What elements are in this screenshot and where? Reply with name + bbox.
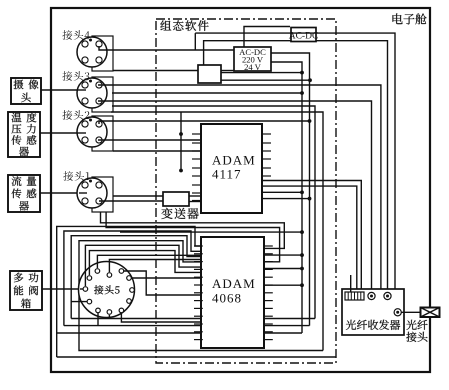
- wire J2 pin to rail310: [99, 121, 310, 124]
- wire 220V box GND rail: [271, 62, 302, 333]
- ADAM4068 right pin y308.4: [264, 307, 273, 309]
- wire J3 bracket to rail323: [111, 112, 323, 351]
- wire 4117 to fiber transceiver a: [262, 181, 361, 290]
- ADAM4068 right pin y300.6: [264, 300, 273, 302]
- wire J4 bracket to blank box: [113, 70, 198, 72]
- wire camera to connector3: [41, 89, 78, 91]
- wire J1 bracket to ADAM4068 right b: [106, 212, 280, 262]
- ADAM4068 right pin y331.8: [264, 331, 273, 333]
- ADAM4117 left pin 3: [192, 150, 201, 152]
- ADAM4068 left pin y339.6: [194, 339, 203, 341]
- wire 4068 right to rail c: [264, 284, 302, 286]
- wire 4068 right to rail a: [264, 254, 302, 256]
- ADAM4068 left pin y261.6: [194, 261, 203, 263]
- label 光纤: [406, 320, 427, 330]
- wire J3 pin to fiber circle1: [98, 101, 372, 289]
- ADAM4068 left pin y277.2: [194, 276, 203, 278]
- wire temp into J2: [77, 132, 86, 134]
- wire J5 pin up wrap b: [89, 251, 201, 275]
- wire J5 bottom pin join a: [97, 313, 99, 326]
- ADAM4068 left pin y316.2: [194, 315, 203, 317]
- connector J1 接头1 body: [77, 178, 107, 208]
- transceiver RJ45 port: [345, 292, 364, 300]
- 组态软件 dash-dot boundary: [156, 19, 336, 363]
- wire flow into J1: [79, 192, 87, 194]
- ADAM4068 left pin y292.8: [194, 292, 203, 294]
- wire flow sensor to connector1: [40, 192, 80, 194]
- ADAM4068 right pin y246: [264, 245, 273, 247]
- ADAM4068 left pin y246: [194, 245, 203, 247]
- ADAM4068 right pin y261.6: [264, 261, 273, 263]
- transceiver port circle 2: [384, 292, 391, 299]
- wire AC feed from small box to 220V box: [244, 27, 290, 48]
- ADAM 4068 module: [201, 237, 264, 348]
- wire J5 left pin to wrap: [71, 301, 89, 303]
- wire J5 bottom pin to 4068 pin322: [121, 313, 201, 322]
- ADAM4117 left pin 2: [192, 142, 201, 144]
- ADAM4068 right pin y285: [264, 284, 273, 286]
- box 多功能阀箱 (multi-function valve box): [10, 271, 42, 310]
- connector J5 接头5 body: [79, 262, 135, 318]
- wire J5 pin up d: [109, 260, 201, 273]
- AC-DC 220V/24V power supply: [234, 47, 271, 71]
- wire blank box up-right rail: [204, 41, 388, 289]
- ADAM4068 left pin y331.8: [194, 331, 203, 333]
- ADAM4068 right pin y277.2: [264, 276, 273, 278]
- AC-DC converter small box: [291, 28, 316, 42]
- wire J5 pin up c: [97, 255, 201, 268]
- wire 4117 right to rail302: [262, 191, 302, 193]
- wire transmitter to ADAM4117 a: [189, 195, 201, 197]
- label 光纤收发器: [346, 320, 400, 330]
- ADAM4068 left pin y253.8: [194, 253, 203, 255]
- svg-text:4068: 4068: [212, 291, 242, 306]
- label 变送器: [161, 208, 198, 219]
- connector J2 接头2 label: [62, 110, 89, 120]
- wrap wire loop4: [79, 241, 323, 351]
- ADAM4117 left pin 5: [192, 167, 201, 169]
- svg-text:ADAM: ADAM: [212, 276, 256, 291]
- ADAM4068 right pin y269.4: [264, 268, 273, 270]
- blank interface box: [198, 65, 221, 83]
- ADAM4117 right pin 3: [262, 150, 271, 152]
- connector J1 接头1 bracket: [92, 177, 113, 212]
- ADAM4117 left pin 9: [192, 200, 201, 202]
- connector J2 接头2 bracket: [92, 116, 113, 151]
- ADAM4117 right pin 5: [262, 167, 271, 169]
- wire rail315 bottom to left: [71, 318, 315, 320]
- ADAM4068 left pin y269.4: [194, 268, 203, 270]
- ADAM4117 right pin 6: [262, 175, 271, 177]
- ADAM4117 right pin 4: [262, 158, 271, 160]
- connector J4 接头4 label: [62, 30, 89, 40]
- wrap wire loop3: [71, 236, 201, 319]
- ADAM4117 left pin 4: [192, 158, 201, 160]
- wire branch up from J4 wire: [194, 33, 196, 50]
- wire J4 pin to AC-DC 220V box: [99, 46, 234, 50]
- wire v56 ext: [56, 333, 58, 357]
- box 流量传感器 (flow sensor): [8, 175, 40, 212]
- wire J5 bottom pin join b: [108, 315, 110, 319]
- ADAM4117 right pin 1: [262, 133, 271, 135]
- box 摄像头 (camera): [11, 78, 41, 104]
- ADAM4117 right pin 2: [262, 142, 271, 144]
- wire J2 bracket to ADAM4117: [113, 150, 201, 152]
- connector J4 接头4 body: [77, 37, 107, 67]
- label 组态软件: [160, 20, 208, 31]
- svg-text:AC-DC: AC-DC: [289, 32, 319, 42]
- wrap wire loop1: [57, 226, 302, 333]
- wire transmitter to ADAM4117 b: [189, 201, 201, 203]
- wire blank box to rail302: [221, 72, 302, 74]
- wrap wire loop2: [64, 231, 201, 326]
- connector J3 接头3 body: [77, 78, 107, 108]
- wire bus vertical: [180, 112, 182, 171]
- label 接头5: [94, 285, 119, 294]
- wire top rail through AC-DC to right: [195, 33, 395, 289]
- ADAM4068 right pin y339.6: [264, 339, 273, 341]
- ADAM4068 right pin y253.8: [264, 253, 273, 255]
- wire 220V box rail310: [271, 53, 310, 326]
- wire transceiver stub: [350, 275, 352, 292]
- wire temp sensor to connector2: [40, 132, 78, 134]
- ADAM4117 left pin 1: [192, 133, 201, 135]
- wire blank box to 220V box: [221, 70, 234, 72]
- ADAM4068 left pin y324: [194, 323, 203, 325]
- wire J5 right pin b: [129, 277, 201, 279]
- wire transceiver to fiber connector: [401, 311, 421, 313]
- wire J5 pin up wrap a: [85, 245, 201, 286]
- fiber transceiver 光纤收发器 box: [342, 289, 404, 335]
- wire blank box to rail310: [221, 79, 310, 81]
- ADAM4068 right pin y316.2: [264, 315, 273, 317]
- fiber connector 光纤接头 symbol: [421, 308, 440, 318]
- wire J1 bracket to transmitter: [113, 195, 163, 197]
- svg-text:4117: 4117: [212, 167, 242, 182]
- connector J2 接头2 body: [77, 117, 107, 147]
- transceiver port circle 1: [368, 292, 375, 299]
- wire J1 pin to transmitter 2: [99, 200, 163, 202]
- svg-text:ADAM: ADAM: [212, 153, 256, 168]
- label 接头: [406, 332, 427, 342]
- wire J3 band wire b rail315: [112, 106, 315, 319]
- ADAM4068 left pin y308.4: [194, 307, 203, 309]
- transceiver fiber port: [394, 309, 401, 316]
- ADAM4068 left pin y300.6: [194, 300, 203, 302]
- wire 4068 right to rail b: [264, 268, 302, 270]
- wire valve box into J5 pin: [80, 288, 85, 290]
- wire bottom long rail: [57, 356, 336, 358]
- ADAM4068 right pin y324: [264, 323, 273, 325]
- wire J5 right pin a: [121, 271, 201, 295]
- wire J2 pin to ADAM4117: [98, 139, 201, 141]
- label 电子舱: [393, 13, 427, 24]
- wire J3 pin to fiber box top: [98, 85, 381, 289]
- wire rail310 bottom to left: [64, 325, 310, 327]
- ADAM4117 left pin 8: [192, 192, 201, 194]
- connector J3 接头3 label: [62, 71, 89, 81]
- wire valve box to connector5: [42, 288, 80, 290]
- transmitter 变送器 box: [163, 192, 189, 206]
- ADAM4068 right pin y292.8: [264, 292, 273, 294]
- connector J4 接头4 bracket: [92, 36, 113, 71]
- connector J1 接头1 label: [63, 171, 89, 181]
- 电子舱 enclosure frame: [51, 8, 430, 372]
- ADAM4068 left pin y285: [194, 284, 203, 286]
- box 温度压力传感器 (temp/pressure sensor): [8, 112, 40, 157]
- connector J3 接头3 bracket: [92, 77, 113, 112]
- svg-text:24 V: 24 V: [244, 62, 262, 72]
- ADAM4117 left pin 6: [192, 175, 201, 177]
- ADAM 4117 module: [201, 124, 262, 213]
- wire 4117 right to rail310: [262, 198, 310, 200]
- wire J1 bracket to ADAM4068 right a: [101, 212, 285, 248]
- wire 4117 to fiber transceiver b: [262, 186, 357, 289]
- ADAM4117 left pin 7: [192, 184, 201, 186]
- connector J5 pins: [95, 269, 100, 274]
- wire camera into J3: [77, 89, 86, 91]
- wire J3 band wire a: [112, 92, 302, 94]
- wire bus to rail302 above 4068: [120, 231, 302, 233]
